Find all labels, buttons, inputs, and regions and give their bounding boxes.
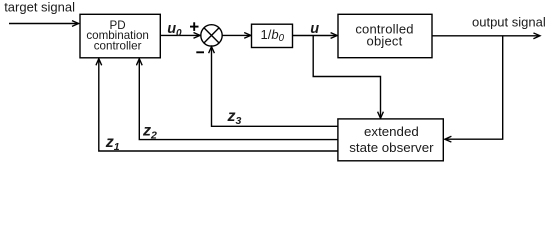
wire PD controller to summing junction (160, 34, 200, 36)
wire 1/b0 block to controlled object (293, 35, 338, 37)
wire z2 observer to PD controller (139, 59, 338, 140)
svg-text:z2: z2 (142, 123, 157, 142)
wire target signal arrow (9, 23, 79, 25)
block PD combination controller (80, 14, 160, 58)
wire controlled object to output signal (432, 35, 540, 37)
svg-text:output signal: output signal (472, 14, 546, 29)
summing junction circle with X (201, 25, 222, 46)
label PD combination controller text (86, 19, 149, 52)
wire u branch to extended state observer top (313, 36, 380, 119)
minus sign at summing junction (196, 51, 204, 53)
wire output feedback to observer right (445, 36, 503, 139)
svg-text:z1: z1 (105, 134, 120, 153)
svg-text:z3: z3 (227, 108, 242, 127)
wire z1 observer to PD controller (99, 59, 338, 151)
wire summing junction to 1/b0 block (222, 34, 251, 36)
svg-text:controller: controller (94, 39, 142, 52)
label extended state observer text (349, 124, 434, 155)
block 1/b0 (252, 24, 293, 47)
svg-text:u: u (310, 21, 319, 37)
svg-text:u0: u0 (167, 21, 182, 39)
svg-text:state observer: state observer (349, 140, 434, 155)
plus sign at summing junction (190, 22, 199, 31)
label controlled object text (355, 22, 413, 49)
svg-text:extended: extended (364, 124, 419, 139)
svg-text:target signal: target signal (4, 0, 75, 15)
block controlled object (338, 14, 432, 57)
wire z3 observer to summing junction minus input (212, 47, 338, 127)
svg-text:object: object (367, 33, 403, 48)
block extended state observer (338, 119, 443, 161)
